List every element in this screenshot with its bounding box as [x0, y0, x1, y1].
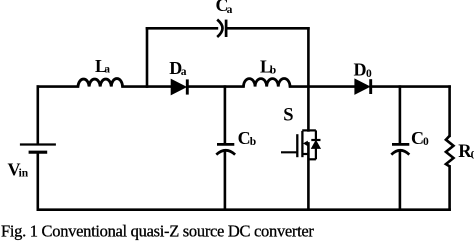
wire Vin branch lower	[36, 154, 39, 210]
svg-text:Fig. 1 Conventional quasi-Z so: Fig. 1 Conventional quasi-Z source DC co…	[1, 221, 314, 240]
diode D0	[355, 79, 371, 94]
svg-text:S: S	[283, 105, 293, 125]
wire MOSFET source down	[307, 143, 310, 209]
wire C0 branch upper	[399, 87, 402, 144]
wire Cb branch lower	[224, 151, 227, 210]
gate lead	[281, 151, 298, 153]
wire Vin branch upper	[36, 87, 39, 144]
svg-text:0: 0	[471, 150, 474, 162]
wire main rail D0-to-right segment	[371, 85, 450, 88]
capacitor Cb	[216, 144, 235, 154]
wire Ca left riser	[146, 28, 149, 86]
wire Ca right riser / drain riser	[307, 28, 310, 130]
wire R0 branch upper	[448, 87, 451, 136]
wire C0 branch lower	[399, 151, 402, 210]
capacitor Ca	[217, 20, 226, 37]
battery Vin	[20, 145, 56, 153]
wire bottom rail	[38, 208, 450, 211]
inductor Lb	[244, 79, 291, 87]
wire main rail Da-to-Lb segment	[187, 85, 243, 88]
source stub	[302, 153, 308, 155]
svg-text:in: in	[19, 168, 29, 180]
svg-text:C: C	[238, 128, 251, 148]
body diode cathode bar	[311, 139, 320, 141]
body branch bottom return	[308, 158, 316, 160]
svg-text:a: a	[104, 64, 110, 76]
svg-text:0: 0	[423, 136, 429, 148]
body arrow stub	[305, 142, 308, 144]
transistor S (MOSFET with body diode)	[281, 130, 321, 159]
body diode branch down	[315, 130, 317, 140]
wire R0 branch lower	[448, 166, 451, 209]
svg-text:b: b	[250, 136, 256, 148]
diode Da	[171, 79, 187, 94]
wire main rail left segment	[38, 85, 78, 88]
channel bar	[301, 131, 303, 157]
inductor La	[78, 79, 123, 87]
svg-text:0: 0	[366, 68, 372, 80]
wire top Ca left segment	[147, 27, 217, 30]
svg-text:a: a	[227, 4, 233, 16]
body diode triangle	[312, 141, 321, 149]
drain top stub	[302, 129, 316, 131]
body arrow head	[303, 141, 308, 147]
wire top Ca right segment	[228, 27, 308, 30]
svg-text:a: a	[181, 66, 187, 78]
gate bar	[296, 134, 298, 157]
capacitor C0	[391, 144, 409, 154]
wire Cb branch upper	[224, 87, 227, 144]
svg-text:D: D	[354, 59, 367, 79]
resistor R0	[446, 136, 454, 167]
wire main rail La-to-Da segment	[123, 85, 172, 88]
svg-text:b: b	[270, 65, 276, 77]
wire main rail Lb-to-D0 segment	[290, 85, 355, 88]
